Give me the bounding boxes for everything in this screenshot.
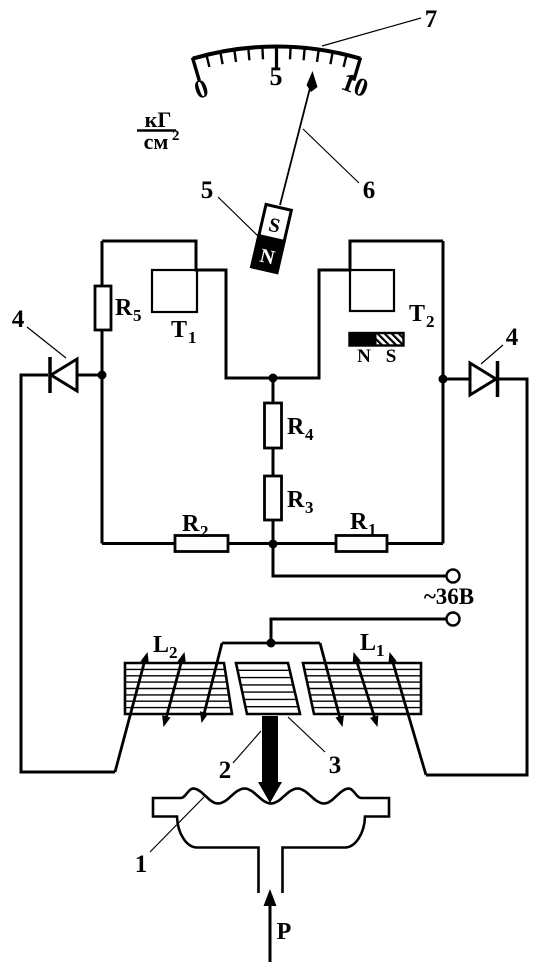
magnet N-S (horizontal) bbox=[350, 333, 404, 367]
gauge scale arc bbox=[193, 47, 360, 59]
inductor L2 winding bbox=[115, 643, 222, 772]
label 4 left pointer line bbox=[27, 327, 66, 358]
svg-text:~36В: ~36В bbox=[424, 584, 474, 609]
label R1 bbox=[350, 509, 377, 539]
units label kG/cm2 bbox=[137, 107, 180, 154]
label 2 pointer line bbox=[233, 731, 261, 763]
svg-text:L: L bbox=[153, 632, 169, 658]
label R2 bbox=[182, 511, 209, 541]
junction bridge bottom bbox=[269, 540, 278, 549]
svg-text:2: 2 bbox=[172, 128, 180, 144]
label R5 bbox=[115, 295, 142, 325]
plunger arrow 2 bbox=[258, 716, 282, 803]
svg-text:5: 5 bbox=[201, 177, 214, 204]
svg-text:R: R bbox=[350, 509, 368, 535]
svg-text:4: 4 bbox=[12, 306, 25, 333]
needle (pointer) 6 bbox=[280, 71, 318, 205]
inductor L1 winding bbox=[320, 643, 426, 775]
wire: bottom bus bbox=[102, 542, 443, 545]
wire: left outer loop bbox=[21, 375, 115, 772]
svg-text:1: 1 bbox=[188, 328, 197, 347]
resistor R2 bbox=[175, 536, 228, 552]
svg-text:1: 1 bbox=[368, 520, 377, 539]
svg-text:N: N bbox=[357, 346, 371, 367]
junction right diode bbox=[439, 375, 448, 384]
inductor L2 core bbox=[125, 663, 232, 714]
junction coil center bbox=[267, 639, 276, 648]
resistor R4 bbox=[265, 403, 282, 448]
magnet 5 (S/N) bbox=[252, 204, 292, 272]
wire: left rail bbox=[101, 241, 104, 544]
wire: top-left loop bbox=[102, 241, 443, 378]
gauge scale tick marks bbox=[193, 46, 361, 81]
wire: right rail bbox=[442, 241, 445, 544]
label R3 bbox=[287, 487, 314, 517]
svg-text:R: R bbox=[287, 487, 305, 513]
svg-text:7: 7 bbox=[425, 6, 438, 33]
svg-text:5: 5 bbox=[133, 306, 142, 325]
wire: terminal 2 branch bbox=[271, 619, 446, 643]
svg-text:4: 4 bbox=[506, 324, 519, 351]
wire to right diode bbox=[443, 378, 470, 381]
label L1 bbox=[360, 630, 385, 660]
svg-text:Т: Т bbox=[409, 301, 425, 327]
terminal 2 bbox=[447, 613, 460, 626]
svg-text:6: 6 bbox=[363, 177, 376, 204]
pressure arrow P bbox=[264, 889, 277, 962]
svg-text:Т: Т bbox=[171, 317, 187, 343]
wire: right outer loop bbox=[426, 379, 527, 775]
inductor L1 core bbox=[303, 663, 421, 714]
svg-text:R: R bbox=[115, 295, 133, 321]
junction left diode bbox=[98, 371, 107, 380]
diode 4 (left) bbox=[50, 357, 77, 393]
junction bridge top bbox=[269, 374, 278, 383]
svg-text:4: 4 bbox=[305, 425, 314, 444]
label 3 pointer line bbox=[288, 717, 325, 752]
svg-text:см: см bbox=[144, 129, 169, 154]
svg-text:S: S bbox=[386, 346, 397, 367]
svg-text:2: 2 bbox=[169, 643, 178, 662]
wire: coil junction bar bbox=[222, 642, 320, 645]
label 6 pointer line bbox=[303, 129, 359, 183]
svg-text:0: 0 bbox=[190, 73, 212, 105]
svg-text:R: R bbox=[287, 414, 305, 440]
diode 4 (right) bbox=[470, 361, 498, 397]
label 7 pointer line bbox=[322, 18, 421, 46]
label 5 pointer line bbox=[218, 197, 259, 237]
resistor R5 bbox=[95, 286, 111, 330]
svg-text:1: 1 bbox=[135, 851, 148, 878]
svg-text:3: 3 bbox=[305, 498, 314, 517]
label 4 right pointer line bbox=[481, 345, 503, 364]
resistor R1 bbox=[336, 536, 387, 552]
label L2 bbox=[153, 632, 178, 662]
transformer T1 box bbox=[152, 270, 197, 312]
label T2 bbox=[409, 301, 435, 331]
label T1 bbox=[171, 317, 197, 347]
core 3 (center plunger core) bbox=[236, 663, 300, 714]
svg-text:5: 5 bbox=[270, 62, 283, 91]
svg-text:R: R bbox=[182, 511, 200, 537]
svg-text:2: 2 bbox=[200, 522, 209, 541]
wire to left diode bbox=[78, 374, 102, 377]
svg-text:P: P bbox=[277, 919, 292, 945]
svg-text:2: 2 bbox=[426, 312, 435, 331]
svg-text:10: 10 bbox=[338, 67, 372, 103]
wire: center column bbox=[273, 378, 446, 576]
membrane capsule 1 bbox=[153, 789, 389, 894]
svg-text:1: 1 bbox=[376, 641, 385, 660]
transformer T2 box bbox=[350, 270, 394, 311]
terminal 1 bbox=[447, 570, 460, 583]
svg-text:L: L bbox=[360, 630, 376, 656]
label R4 bbox=[287, 414, 314, 444]
resistor R3 bbox=[265, 476, 282, 520]
svg-text:3: 3 bbox=[329, 752, 342, 779]
svg-text:2: 2 bbox=[219, 757, 232, 784]
label 1 pointer line bbox=[150, 797, 204, 852]
